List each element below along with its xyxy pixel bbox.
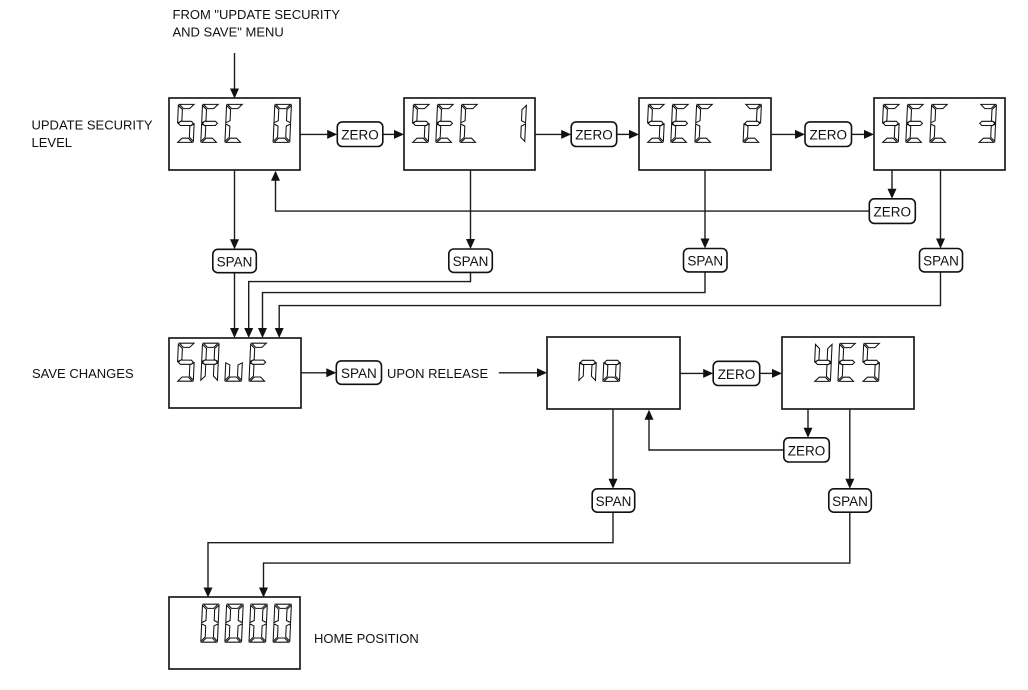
svg-text:ZERO: ZERO (788, 443, 826, 458)
7-segment digits no (579, 360, 620, 381)
wire SEC3 down to SPAN4 (936, 170, 945, 249)
svg-text:ZERO: ZERO (809, 128, 847, 143)
svg-text:ZERO: ZERO (341, 128, 379, 143)
wire SEC3 down to ZERO4 (888, 170, 897, 199)
7-segment digits SEC 1 (413, 104, 527, 142)
display box HOME 0000 (169, 597, 300, 669)
wire SPAN2 route to SAVE (244, 272, 470, 338)
display box SAVE (169, 338, 301, 408)
7-segment digits SEC 2 (648, 104, 762, 142)
7-segment digits YES (815, 343, 880, 381)
svg-text:SPAN: SPAN (596, 494, 632, 509)
button SPAN4 (920, 249, 963, 272)
7-segment digits 0000 (201, 604, 292, 642)
wire release to NO box (499, 368, 547, 377)
wire SEC0 down to SPAN1 (230, 170, 239, 249)
button SPAN7 (829, 489, 872, 512)
wire ZERO6 loop back to NO (645, 410, 784, 450)
svg-text:UPDATE SECURITY: UPDATE SECURITY (32, 118, 153, 133)
display box SEC 0 (169, 98, 300, 170)
7-segment digits SAvE (178, 343, 267, 381)
display box SEC 2 (639, 98, 771, 170)
wire SPAN7 route to HOME (259, 512, 850, 597)
wire ZERO4 loop back to SEC0 (271, 171, 869, 211)
wire SPAN3 route to SAVE (258, 272, 705, 338)
svg-text:HOME POSITION: HOME POSITION (314, 631, 419, 646)
wire ZERO5 to YES (760, 369, 782, 378)
svg-text:SPAN: SPAN (453, 254, 489, 269)
wire ZERO3 to SEC3 (852, 130, 875, 139)
display box NO (547, 337, 680, 409)
button SPAN5 (336, 361, 381, 384)
button SPAN6 (592, 489, 635, 512)
7-segment digits SEC 0 (178, 104, 292, 142)
wire ZERO1 to SEC1 (383, 130, 404, 139)
svg-text:SPAN: SPAN (217, 255, 253, 270)
wire SEC2 down to SPAN3 (701, 170, 710, 249)
svg-text:ZERO: ZERO (874, 205, 912, 220)
wire NO down to SPAN6 (609, 409, 618, 489)
wire SEC1 down to SPAN2 (466, 170, 475, 249)
button ZERO4 (869, 199, 915, 224)
button ZERO5 (713, 361, 760, 385)
button ZERO1 (337, 122, 383, 147)
svg-text:SPAN: SPAN (923, 254, 959, 269)
wire SPAN4 route to SAVE (275, 272, 941, 338)
display box SEC 1 (404, 98, 535, 170)
display box SEC 3 (874, 98, 1005, 170)
button SPAN3 (684, 249, 728, 272)
wire SEC2 to ZERO3 (771, 130, 805, 139)
button SPAN2 (449, 249, 493, 272)
svg-text:ZERO: ZERO (718, 367, 756, 382)
wire NO to ZERO5 (680, 369, 713, 378)
display box YES (782, 337, 914, 409)
button ZERO2 (571, 122, 617, 147)
svg-text:AND SAVE" MENU: AND SAVE" MENU (173, 24, 284, 39)
wire entry from menu (230, 53, 239, 99)
wire SEC0 to ZERO1 (300, 130, 337, 139)
wire SAVE to SPAN5 (301, 368, 336, 377)
wire ZERO2 to SEC2 (617, 130, 639, 139)
wire SEC1 to ZERO2 (535, 130, 571, 139)
wire YES down to ZERO6 (804, 409, 813, 438)
svg-text:UPON RELEASE: UPON RELEASE (387, 366, 488, 381)
svg-text:SPAN: SPAN (687, 254, 723, 269)
svg-text:SAVE CHANGES: SAVE CHANGES (32, 366, 134, 381)
svg-text:ZERO: ZERO (575, 128, 613, 143)
button ZERO3 (805, 122, 852, 147)
svg-text:SPAN: SPAN (341, 366, 377, 381)
wire SPAN1 down to SAVE (230, 273, 239, 338)
svg-text:SPAN: SPAN (832, 494, 868, 509)
7-segment digits SEC 3 (883, 104, 997, 142)
wire SPAN6 route to HOME (204, 512, 614, 597)
button ZERO6 (784, 438, 830, 462)
button SPAN1 (213, 249, 256, 272)
svg-text:FROM "UPDATE SECURITY: FROM "UPDATE SECURITY (173, 7, 341, 22)
svg-text:LEVEL: LEVEL (32, 135, 72, 150)
wire YES down to SPAN7 (845, 409, 854, 489)
